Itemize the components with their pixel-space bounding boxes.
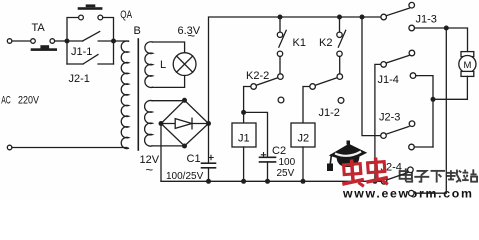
svg-text:M: M: [464, 60, 472, 71]
watermark graduation cap: [327, 141, 367, 172]
svg-text:J1-2: J1-2: [319, 107, 340, 119]
node rail J1: [241, 179, 246, 184]
svg-text:C2: C2: [272, 145, 286, 157]
contact J2-3: [381, 121, 415, 150]
node right branch: [111, 39, 116, 44]
transformer secondary 12V winding: [145, 100, 153, 146]
motor M: [459, 52, 476, 77]
wire: [12, 40, 31, 42]
contact J1-3: [381, 2, 415, 30]
contact J1-2: [310, 74, 344, 104]
watermark text dianzi xiazaizhan: [400, 168, 477, 182]
wire left riser: [67, 18, 79, 65]
svg-text:J1-1: J1-1: [71, 46, 92, 58]
wire C1 drop: [208, 124, 210, 164]
node K1 tap: [278, 15, 283, 20]
contact J1-4: [381, 50, 416, 78]
contact K2-2: [251, 74, 284, 103]
wire J1 drop: [243, 112, 245, 123]
transformer core: [137, 39, 139, 150]
wire: [243, 147, 245, 181]
wire plus rail up: [209, 17, 281, 124]
contact K2: [337, 17, 346, 57]
wire J2-4 to motor top riser: [414, 28, 446, 193]
wire: [208, 168, 210, 182]
bridge rectifier: [161, 100, 209, 146]
top rail: [280, 16, 381, 18]
wire DC minus down: [160, 124, 162, 182]
wire riser to J2-3: [362, 17, 381, 136]
relay coil J2: [291, 123, 315, 147]
svg-text:100: 100: [279, 157, 296, 168]
wire: [103, 18, 114, 65]
node J1 top: [241, 110, 246, 115]
wire J2-3 lower: [414, 146, 433, 148]
wire 12V bottom to bridge: [152, 145, 184, 147]
capacitor C2: [260, 153, 276, 162]
wire lamp bottom: [153, 76, 185, 88]
contact J1-1: [67, 32, 114, 42]
terminal circle AC top: [7, 39, 12, 44]
svg-text:~: ~: [188, 28, 196, 43]
wire K2-2 to J1: [244, 87, 251, 113]
node K2 tap: [337, 15, 342, 20]
svg-text:L: L: [160, 59, 166, 71]
pushbutton TA: [31, 39, 57, 51]
node bridge bottom: [182, 144, 187, 149]
transformer secondary 6.3V winding: [145, 42, 153, 88]
svg-text:K1: K1: [293, 37, 306, 49]
wire: [267, 162, 269, 181]
watermark red chongchong: [341, 157, 389, 188]
terminal circle AC bottom: [7, 145, 12, 150]
svg-text:J2-3: J2-3: [379, 112, 400, 124]
wire J1-4 to motor bottom node: [416, 76, 433, 147]
svg-text:J2-1: J2-1: [69, 73, 90, 85]
svg-text:www.eeworm.com: www.eeworm.com: [342, 187, 474, 201]
capacitor C1: [202, 155, 216, 168]
wire: [279, 57, 281, 74]
svg-text:K2-2: K2-2: [246, 70, 269, 82]
node minus riser rail: [372, 179, 377, 184]
wire node to C2: [244, 112, 268, 157]
wire motor bottom: [433, 76, 467, 99]
wire: [339, 57, 341, 74]
contact K1: [277, 17, 286, 57]
svg-text:J1: J1: [238, 133, 250, 145]
transformer B primary: [121, 41, 128, 149]
svg-text:TA: TA: [32, 22, 46, 34]
bottom rail: [161, 180, 381, 182]
svg-text:QA: QA: [120, 9, 132, 21]
svg-text:K2: K2: [319, 37, 332, 49]
wire J1-3 to motor top: [415, 27, 447, 29]
svg-text:100/25V: 100/25V: [166, 171, 204, 182]
node bridge top: [182, 98, 187, 103]
node rail J2: [301, 179, 306, 184]
svg-text:J2: J2: [298, 133, 310, 145]
node motor top: [444, 26, 449, 31]
wire AC bottom: [12, 147, 127, 149]
node rail C2: [265, 179, 270, 184]
node rail C1: [206, 179, 211, 184]
svg-text:J1-3: J1-3: [416, 14, 437, 26]
svg-text:J1-4: J1-4: [378, 74, 399, 86]
svg-text:C1: C1: [187, 153, 201, 165]
wire lamp top: [153, 42, 185, 53]
wire: [114, 40, 129, 42]
svg-text:~: ~: [146, 162, 154, 177]
svg-text:AC: AC: [1, 94, 11, 106]
node bridge right: [206, 121, 211, 126]
svg-text:B: B: [134, 25, 141, 37]
node J23 riser: [360, 15, 365, 20]
svg-text:220V: 220V: [18, 94, 40, 106]
wire: [55, 40, 67, 42]
relay coil J1: [232, 123, 256, 147]
pushbutton QA: [78, 4, 103, 20]
wire J1-2 to J2: [303, 87, 310, 124]
node bridge left: [159, 121, 164, 126]
lamp L: [173, 53, 196, 76]
wire 12V top to bridge: [152, 100, 184, 102]
node motor bottom: [431, 97, 436, 102]
wire J1-4 pole to minus riser: [375, 64, 381, 181]
wire: [302, 147, 304, 181]
contact J2-1: [67, 55, 114, 65]
contact J2-4: [381, 167, 414, 196]
node left branch: [65, 39, 70, 44]
wire: [446, 28, 467, 52]
svg-text:25V: 25V: [277, 168, 295, 179]
